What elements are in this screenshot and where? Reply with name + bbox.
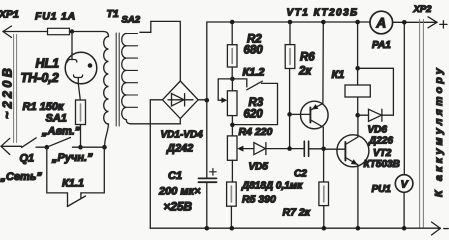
junction dot VT2 emitter bottom — [356, 226, 361, 231]
plus sign — [440, 21, 447, 28]
svg-text:620: 620 — [244, 109, 264, 121]
wire Q1 contact stub — [36, 146, 47, 148]
wire to primary bottom node — [81, 146, 105, 148]
diode VD6 — [358, 68, 394, 121]
svg-text:„Сеть”: „Сеть” — [0, 171, 42, 183]
connector XP2 arrow plus — [428, 17, 437, 28]
svg-text:К1.2: К1.2 — [243, 67, 265, 79]
bridge diode symbol — [168, 94, 193, 106]
svg-text:V: V — [401, 179, 409, 191]
svg-text:Q1: Q1 — [20, 153, 35, 165]
resistor R5 — [227, 182, 237, 228]
fuse FU1 — [48, 28, 70, 34]
neon lamp HL1 — [65, 32, 97, 101]
svg-text:SA2: SA2 — [122, 15, 141, 26]
svg-text:„Авт.”: „Авт.” — [41, 126, 81, 138]
top rail after ammeter — [393, 21, 438, 23]
junction dot R2 top — [230, 20, 235, 25]
connector XP1 arrow (top mains wire) — [3, 26, 48, 38]
svg-text:FU1 1А: FU1 1А — [35, 11, 76, 23]
svg-text:„Ручн.”: „Ручн.” — [51, 152, 93, 164]
wire SA2 to bridge AC1 — [151, 21, 181, 81]
bottom rail minus — [150, 227, 440, 229]
svg-text:PU1: PU1 — [372, 184, 392, 195]
capacitor C2 — [304, 141, 323, 156]
potentiometer R4 — [227, 125, 254, 182]
svg-text:К1.1: К1.1 — [62, 178, 84, 190]
junction node VT1 base tap — [287, 112, 292, 117]
secondary taps — [126, 34, 137, 108]
junction node R3 bottom — [230, 123, 235, 128]
svg-text:2к: 2к — [298, 66, 312, 78]
svg-text:VD1-VD4: VD1-VD4 — [161, 130, 204, 141]
resistor R6 — [285, 22, 295, 149]
junction dot R7 bottom — [322, 226, 327, 231]
svg-text:200 мк×: 200 мк× — [158, 186, 201, 198]
svg-text:HL1: HL1 — [36, 57, 60, 71]
wire fuse to transformer primary top — [70, 32, 109, 37]
svg-text:R5 390: R5 390 — [242, 194, 276, 206]
junction dot PU1 rail — [402, 20, 407, 25]
svg-text:Т1: Т1 — [107, 8, 119, 20]
resistor R1 — [76, 100, 86, 147]
switch SA2 arm — [140, 21, 151, 32]
junction dot R5 bottom — [230, 226, 235, 231]
junction node VD5-C2 — [287, 146, 292, 151]
junction dot K1 bottom — [355, 113, 360, 118]
junction dot DC plus — [205, 98, 210, 103]
junction node R2 bottom — [230, 77, 235, 82]
svg-text:Д242: Д242 — [166, 143, 193, 155]
svg-text:R4 220: R4 220 — [239, 126, 273, 138]
junction dot lamp tap — [70, 29, 74, 33]
wire bridge plus to top rail — [198, 22, 207, 100]
ammeter PA1 — [370, 11, 393, 34]
junction dot VT1 emitter rail — [321, 20, 326, 25]
junction dot R6 top — [288, 20, 293, 25]
svg-text:R1 150к: R1 150к — [23, 101, 65, 113]
battery cable pair — [420, 20, 424, 229]
wire SA1 contact stub — [73, 146, 81, 148]
junction node primary bottom — [102, 145, 107, 150]
svg-text:SA1: SA1 — [46, 113, 67, 125]
switch SA1 blade — [47, 138, 71, 148]
relay contact K1.1 loop — [47, 147, 105, 206]
junction dot K1 rail — [355, 20, 360, 25]
svg-text:ХР2: ХР2 — [413, 4, 433, 15]
svg-text:~220В: ~220В — [1, 65, 15, 119]
transformer core — [116, 33, 119, 126]
svg-text:РА1: РА1 — [372, 40, 391, 51]
wire secondary bottom to bridge AC2 — [126, 119, 180, 124]
resistor R7 — [319, 149, 329, 228]
svg-text:ХР1: ХР1 — [0, 9, 19, 21]
wire bridge minus to bottom rail — [150, 100, 162, 228]
relay contact K1.2 — [232, 79, 277, 125]
svg-text:R7 2к: R7 2к — [283, 207, 311, 219]
svg-text:R6: R6 — [300, 52, 315, 64]
svg-text:A: A — [375, 16, 386, 31]
svg-text:R3: R3 — [249, 97, 264, 109]
junction node R1 bottom — [78, 145, 83, 150]
junction dot PU1 bottom — [402, 226, 407, 231]
voltmeter PU1 — [395, 22, 413, 228]
svg-text:К аккумулятору: К аккумулятору — [433, 65, 445, 197]
potentiometer R3 — [218, 79, 237, 125]
svg-text:×25В: ×25В — [164, 200, 193, 214]
zener diode VD5 — [254, 143, 304, 155]
svg-text:VT2: VT2 — [373, 148, 392, 159]
transformer T1 secondary winding — [122, 34, 127, 120]
mains cable pair ~220V — [14, 35, 17, 143]
capacitor C1 — [199, 100, 217, 228]
bridge rectifier VD1-VD4 diamond — [163, 81, 199, 119]
transistor VT1 — [290, 22, 329, 149]
relay coil K1 — [345, 22, 370, 115]
svg-text:VD6: VD6 — [368, 125, 388, 136]
svg-text:ТН-0,2: ТН-0,2 — [21, 71, 59, 85]
junction node C2-VT2 base — [321, 147, 326, 152]
junction node A — [45, 145, 50, 150]
svg-text:680: 680 — [244, 45, 264, 57]
minus sign — [444, 228, 448, 230]
svg-text:VD5: VD5 — [249, 162, 269, 173]
connector XP2 arrow minus — [432, 222, 441, 235]
svg-text:С1: С1 — [168, 170, 182, 182]
wire primary bottom lead — [105, 124, 109, 147]
transistor VT2 — [324, 115, 369, 228]
switch Q1 blade — [22, 138, 37, 148]
top rail plus — [207, 21, 370, 23]
resistor R2 — [227, 22, 237, 79]
svg-text:С2: С2 — [294, 169, 307, 180]
svg-text:VT1 КТ203Б: VT1 КТ203Б — [287, 8, 359, 19]
junction dot K1 top — [355, 66, 360, 71]
svg-text:К1: К1 — [332, 69, 345, 81]
junction dot C1 bottom — [205, 226, 210, 231]
connector XP1 arrow (bottom mains wire) — [1, 138, 22, 154]
svg-text:КТ503В: КТ503В — [364, 159, 400, 170]
svg-text:Д226: Д226 — [368, 136, 393, 147]
svg-text:Д818Д 0,1мк: Д818Д 0,1мк — [241, 181, 303, 192]
transformer T1 primary winding — [104, 37, 109, 125]
